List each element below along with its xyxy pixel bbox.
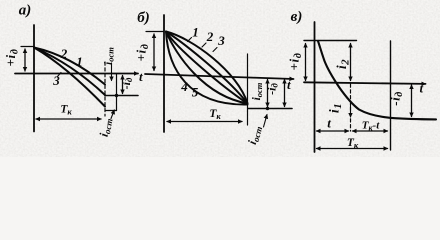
curve 4 (graph b) — [166, 32, 248, 104]
+id measure arrow (graph b) — [153, 34, 155, 71]
i2 measure arrow (graph c) — [350, 44, 352, 81]
-id measure arrow (graph b) — [284, 80, 286, 107]
Tk dimension arrow (graph c) — [317, 148, 388, 150]
curve 1 (graph b) — [166, 32, 248, 104]
-id measure arrow (graph c) — [411, 85, 413, 117]
curve 2 (graph b) — [166, 32, 248, 104]
svg-text:4: 4 — [180, 79, 188, 94]
i_ost bottom pointer (graph a) — [111, 110, 114, 119]
residual current line (graph a) — [105, 95, 138, 97]
node dot (graph a) — [115, 94, 118, 97]
pointer from label 3 (graph b) — [213, 48, 217, 52]
horizontal segment (graph a) — [105, 110, 117, 112]
small down arrow on time line (graph c) — [350, 104, 352, 117]
Tk arrow (graph b) — [167, 121, 242, 123]
svg-text:2: 2 — [60, 46, 68, 61]
svg-text:2: 2 — [206, 29, 214, 44]
tick at +id level (graph a) — [21, 46, 34, 48]
svg-text:t: t — [420, 81, 424, 96]
svg-text:1: 1 — [192, 25, 199, 40]
svg-text:t: t — [139, 69, 143, 84]
pointer from label 3 — [58, 73, 62, 77]
decay curve (graph c) — [318, 41, 436, 119]
paper grain — [0, 0, 440, 157]
axis vertical (graph a) — [33, 25, 35, 132]
Tk arrow (graph a) — [36, 118, 101, 120]
curve 2 (graph a) — [34, 48, 105, 85]
t dimension arrow (graph c) — [317, 130, 349, 132]
curve 1 (graph a) — [34, 48, 105, 96]
Tk vertical line (graph c) — [390, 41, 392, 150]
svg-text:а): а) — [19, 3, 32, 19]
svg-text:t: t — [327, 116, 331, 131]
+id measure arrow (graph a) — [24, 49, 26, 71]
axis horizontal t (graph a) — [15, 73, 138, 75]
svg-text:t: t — [287, 77, 291, 92]
i_ost bottom pointer (graph b) — [264, 115, 268, 128]
svg-text:1: 1 — [76, 54, 83, 69]
vertical line end of Tk (graph b) — [247, 54, 249, 125]
axis horizontal t (graph b) — [145, 74, 294, 79]
pointer from label 1 (graph b) — [188, 38, 192, 42]
i_ost pointer arrow (graph a) — [111, 63, 113, 81]
curve 5 (graph b) — [166, 32, 248, 105]
axis vertical (graph b) — [163, 15, 165, 132]
svg-text:5: 5 — [192, 85, 199, 100]
dashed vertical end of Tk (graph a) — [104, 62, 106, 116]
axis vertical (graph c) — [314, 22, 316, 152]
node dot (graph b) — [266, 107, 269, 110]
dashed time line (graph c) — [350, 84, 352, 131]
svg-text:iост: iост — [103, 47, 116, 65]
i_ost measure arrow (graph b) — [267, 80, 269, 107]
+id measure arrow (graph c) — [305, 44, 307, 81]
svg-text:б): б) — [137, 10, 149, 26]
-id measure arrow (graph a) — [122, 76, 124, 94]
tick at +id level (graph b) — [146, 31, 164, 33]
curve 3 (graph b) — [166, 32, 248, 104]
paper background — [0, 0, 440, 157]
vertical sample line (graph a) — [116, 74, 118, 111]
svg-text:3: 3 — [217, 33, 225, 48]
axis horizontal t (graph c) — [304, 82, 426, 84]
top level line (graph c) — [304, 40, 357, 42]
Tk-t dimension arrow (graph c) — [353, 130, 388, 132]
residual current line (graph b) — [248, 108, 292, 110]
svg-text:в): в) — [291, 9, 303, 25]
pointer from label 2 (graph b) — [202, 43, 206, 47]
curve 3 (graph a) — [34, 48, 105, 107]
